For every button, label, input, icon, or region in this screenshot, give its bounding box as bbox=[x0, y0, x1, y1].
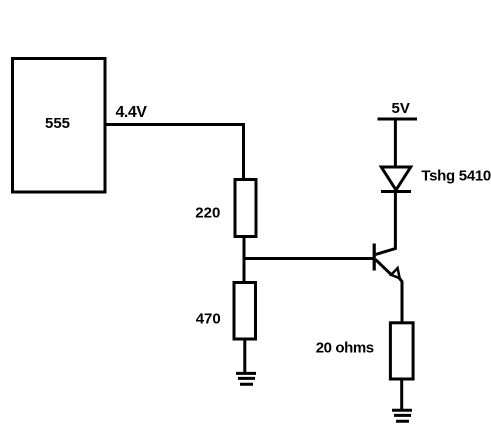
svg-text:555: 555 bbox=[45, 115, 70, 132]
svg-text:470: 470 bbox=[196, 311, 221, 328]
svg-text:Tshg 5410: Tshg 5410 bbox=[421, 168, 491, 185]
svg-text:220: 220 bbox=[195, 205, 220, 222]
svg-text:4.4V: 4.4V bbox=[116, 104, 148, 121]
svg-text:20 ohms: 20 ohms bbox=[316, 340, 374, 357]
svg-text:5V: 5V bbox=[392, 100, 410, 117]
